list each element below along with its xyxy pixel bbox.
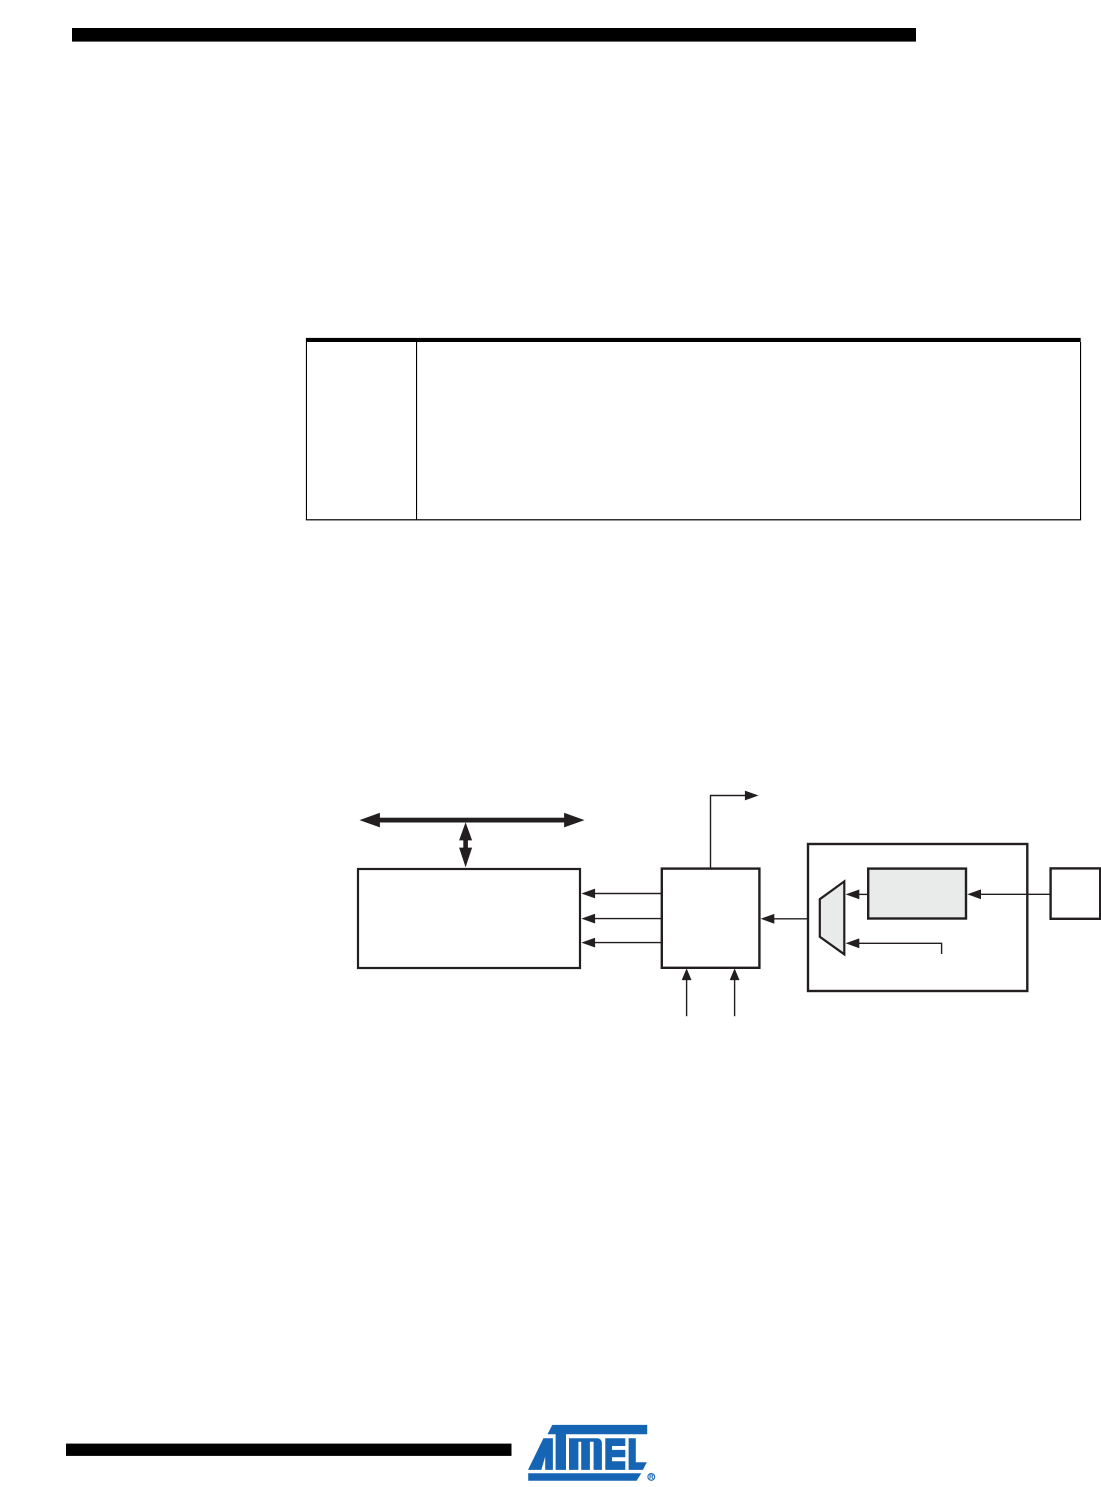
arrowhead into left block 3 [581, 938, 595, 948]
output line up from middle block [711, 796, 747, 869]
bottom input arrowhead 2 [730, 968, 740, 980]
table frame right border [1080, 342, 1081, 520]
arrowhead into left block 2 [581, 914, 595, 924]
table frame bottom border [306, 519, 1081, 520]
bottom input wire 1 [686, 979, 688, 1016]
bus double arrow (horizontal) [360, 813, 585, 828]
table frame left border [306, 342, 307, 520]
arrowhead into mux [846, 890, 860, 900]
wire register to mux [857, 893, 868, 895]
wire second mux input [857, 943, 942, 954]
mux trapezoid [820, 881, 845, 954]
bottom input arrowhead 1 [682, 968, 692, 980]
wire middle block to left block 1 [595, 893, 662, 895]
wire external box to register [979, 893, 1051, 895]
right outer block [808, 844, 1027, 991]
wire mux output to middle block [772, 918, 820, 920]
logo letter T stem [556, 1434, 566, 1470]
logo bottom bar [528, 1473, 641, 1481]
shaded register block [868, 869, 966, 919]
logo letter E [605, 1438, 625, 1470]
wire middle block to left block 2 [595, 918, 662, 920]
arrowhead into left block 1 [581, 889, 595, 899]
external oscillator box [1051, 868, 1101, 918]
middle block (small square) [662, 869, 760, 968]
logo registered trademark [648, 1474, 655, 1482]
footer rule [66, 1444, 512, 1456]
Atmel logo [528, 1425, 647, 1481]
output arrowhead (right) [745, 791, 759, 801]
arrowhead into register [967, 889, 981, 899]
svg-text:R: R [649, 1474, 654, 1481]
wire middle block to left block 3 [595, 942, 662, 944]
arrowhead into middle block [761, 914, 775, 924]
header rule [72, 28, 916, 42]
logo letter M [569, 1438, 602, 1470]
logo letter A [528, 1438, 553, 1470]
bus-to-block double arrow (vertical) [459, 822, 472, 867]
logo letter L [629, 1438, 647, 1470]
table frame top thick border [306, 338, 1081, 342]
table column divider [416, 342, 417, 520]
arrowhead second mux input [846, 938, 860, 948]
logo top bar [548, 1425, 648, 1434]
bottom input wire 2 [734, 979, 736, 1016]
left block (large rectangle) [358, 869, 580, 968]
